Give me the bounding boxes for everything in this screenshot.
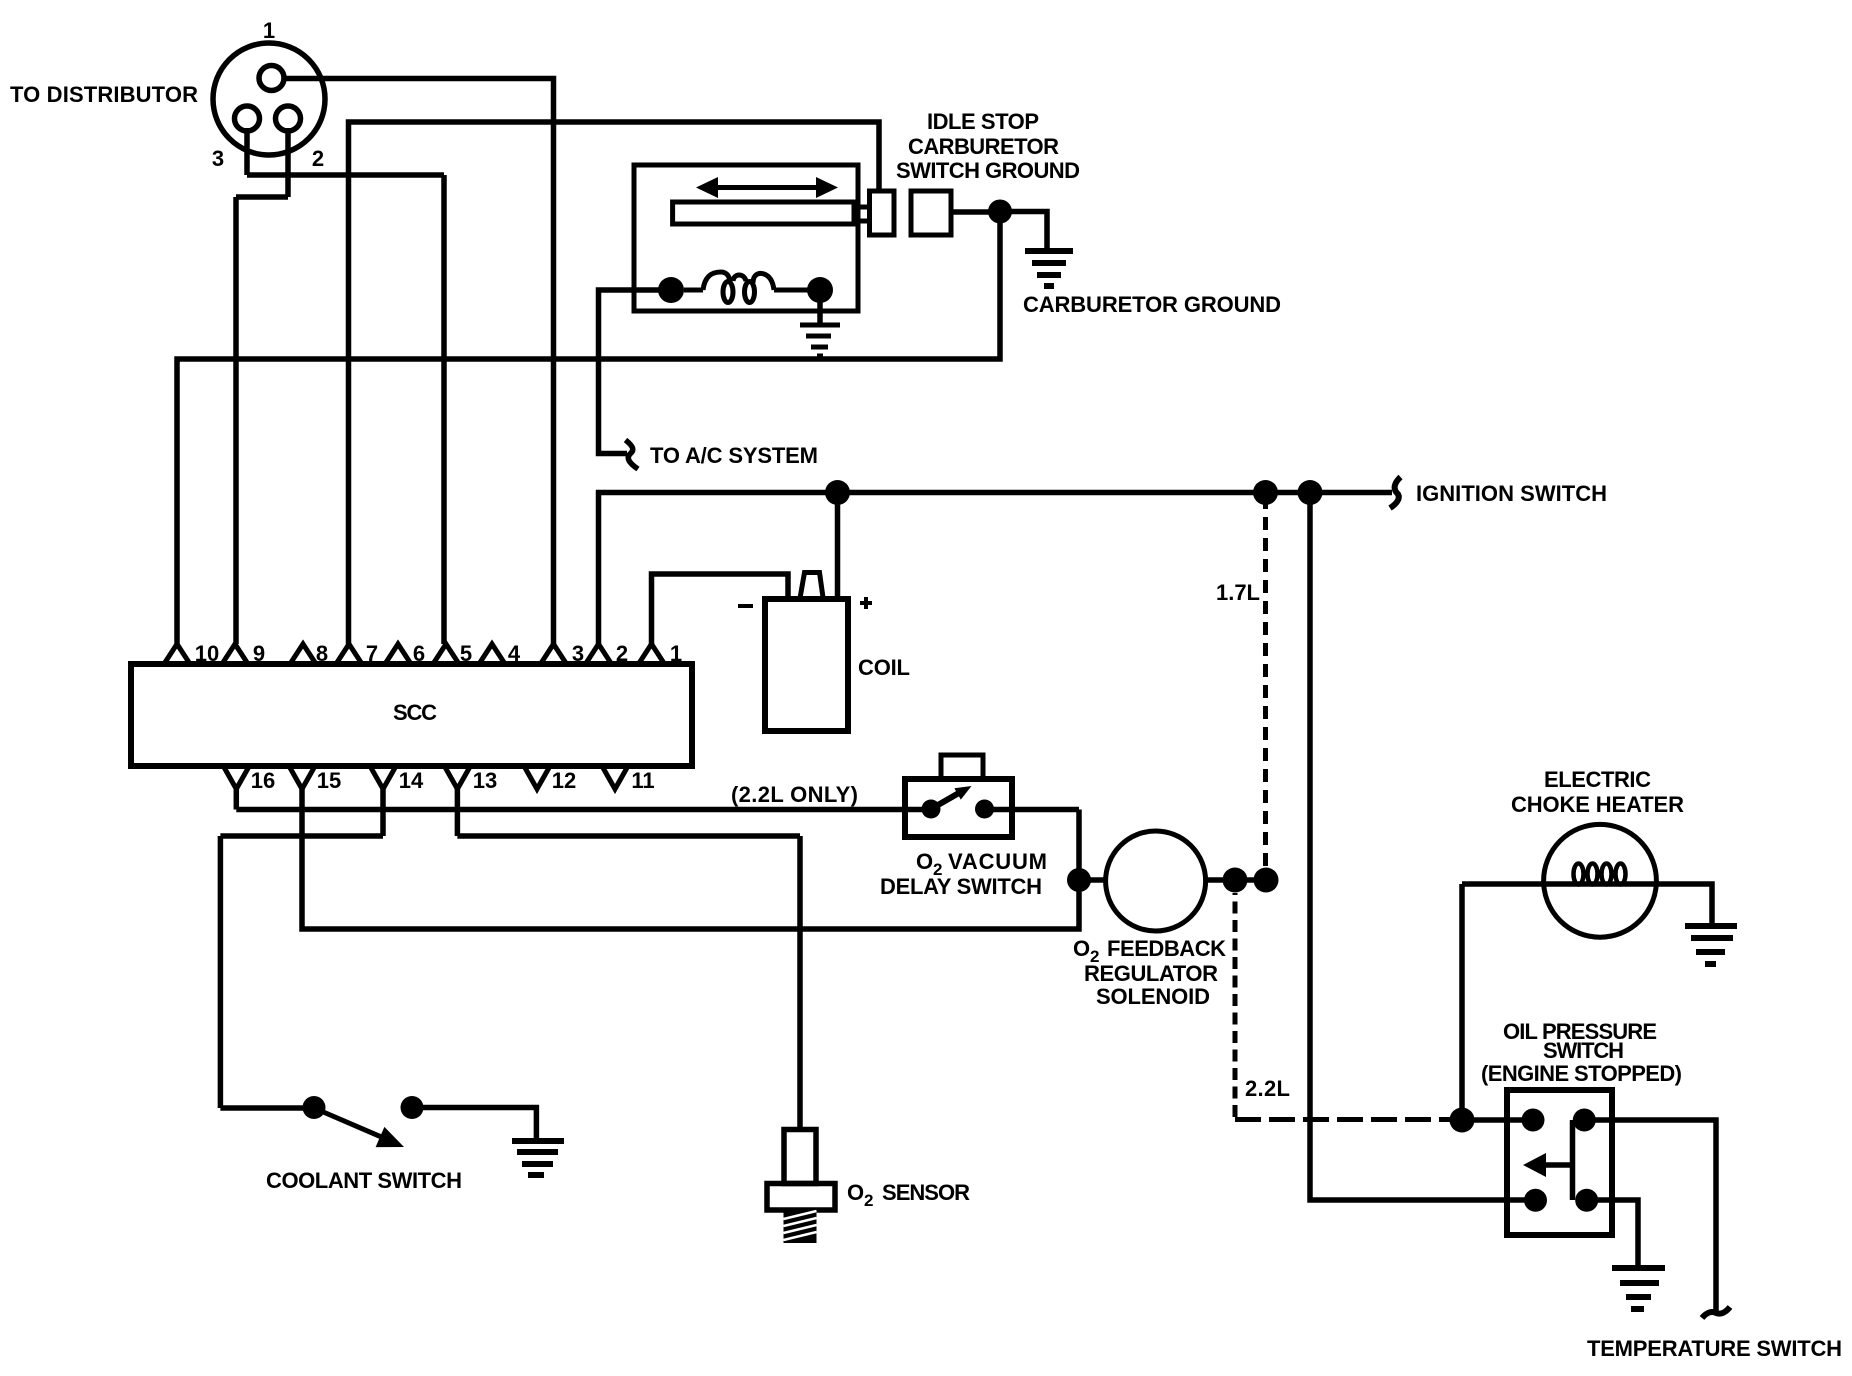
svg-text:CHOKE HEATER: CHOKE HEATER (1511, 792, 1684, 817)
svg-text:4: 4 (508, 641, 521, 666)
svg-text:5: 5 (460, 641, 472, 666)
svg-text:TEMPERATURE SWITCH: TEMPERATURE SWITCH (1587, 1336, 1842, 1361)
svg-text:2: 2 (864, 1191, 873, 1210)
svg-text:9: 9 (253, 641, 265, 666)
svg-text:15: 15 (317, 768, 341, 793)
svg-text:3: 3 (212, 146, 224, 171)
svg-text:IGNITION SWITCH: IGNITION SWITCH (1416, 481, 1607, 506)
svg-text:2.2L: 2.2L (1245, 1076, 1290, 1101)
svg-text:1: 1 (263, 18, 275, 43)
svg-text:1: 1 (670, 641, 682, 666)
svg-text:14: 14 (399, 768, 424, 793)
svg-text:12: 12 (552, 768, 576, 793)
svg-text:O: O (916, 849, 933, 874)
svg-text:DELAY SWITCH: DELAY SWITCH (880, 874, 1042, 899)
svg-text:REGULATOR: REGULATOR (1084, 961, 1218, 986)
svg-text:COIL: COIL (858, 655, 910, 680)
svg-text:SWITCH: SWITCH (1543, 1038, 1624, 1063)
svg-text:2: 2 (616, 641, 628, 666)
svg-text:CARBURETOR: CARBURETOR (908, 134, 1059, 159)
svg-text:13: 13 (473, 768, 497, 793)
svg-text:(2.2L ONLY): (2.2L ONLY) (731, 782, 858, 807)
svg-text:2: 2 (1090, 947, 1099, 966)
svg-text:SWITCH GROUND: SWITCH GROUND (896, 158, 1080, 183)
svg-text:6: 6 (413, 641, 425, 666)
svg-text:16: 16 (251, 768, 275, 793)
svg-text:7: 7 (366, 641, 378, 666)
svg-text:1.7L: 1.7L (1216, 580, 1260, 605)
svg-text:SCC: SCC (393, 700, 437, 725)
svg-text:SENSOR: SENSOR (882, 1180, 970, 1205)
svg-text:TO A/C SYSTEM: TO A/C SYSTEM (650, 443, 818, 468)
svg-text:O: O (1073, 936, 1090, 961)
svg-text:O: O (847, 1180, 864, 1205)
svg-text:2: 2 (312, 146, 324, 171)
svg-text:CARBURETOR GROUND: CARBURETOR GROUND (1023, 292, 1281, 317)
svg-text:VACUUM: VACUUM (948, 849, 1047, 874)
svg-text:10: 10 (195, 641, 219, 666)
svg-text:8: 8 (316, 641, 328, 666)
svg-text:2: 2 (933, 860, 942, 879)
svg-text:SOLENOID: SOLENOID (1096, 984, 1210, 1009)
svg-text:IDLE STOP: IDLE STOP (927, 109, 1039, 134)
svg-text:FEEDBACK: FEEDBACK (1107, 936, 1226, 961)
svg-text:3: 3 (572, 641, 584, 666)
svg-text:ELECTRIC: ELECTRIC (1544, 767, 1651, 792)
svg-text:COOLANT SWITCH: COOLANT SWITCH (266, 1168, 462, 1193)
svg-text:TO DISTRIBUTOR: TO DISTRIBUTOR (10, 82, 198, 107)
svg-text:(ENGINE STOPPED): (ENGINE STOPPED) (1481, 1061, 1682, 1086)
svg-text:11: 11 (631, 768, 654, 793)
